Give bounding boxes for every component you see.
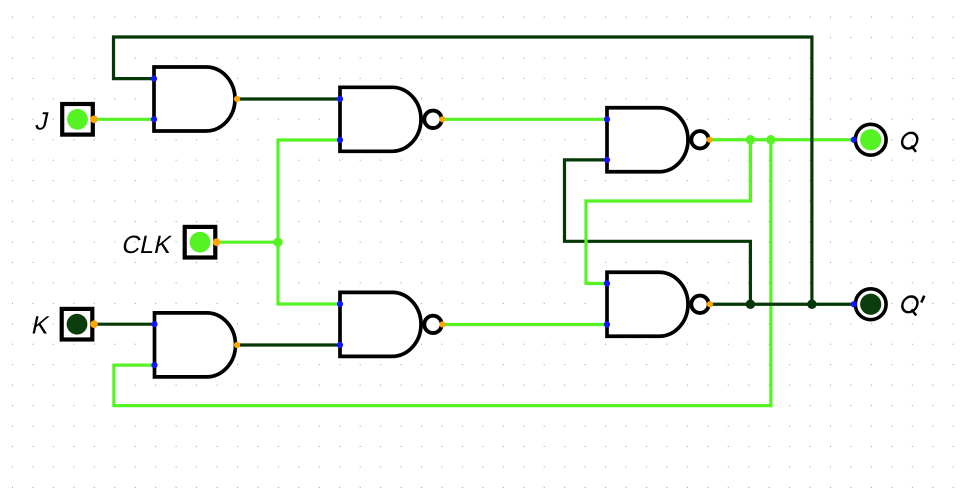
svg-text:CLK: CLK — [120, 231, 175, 259]
